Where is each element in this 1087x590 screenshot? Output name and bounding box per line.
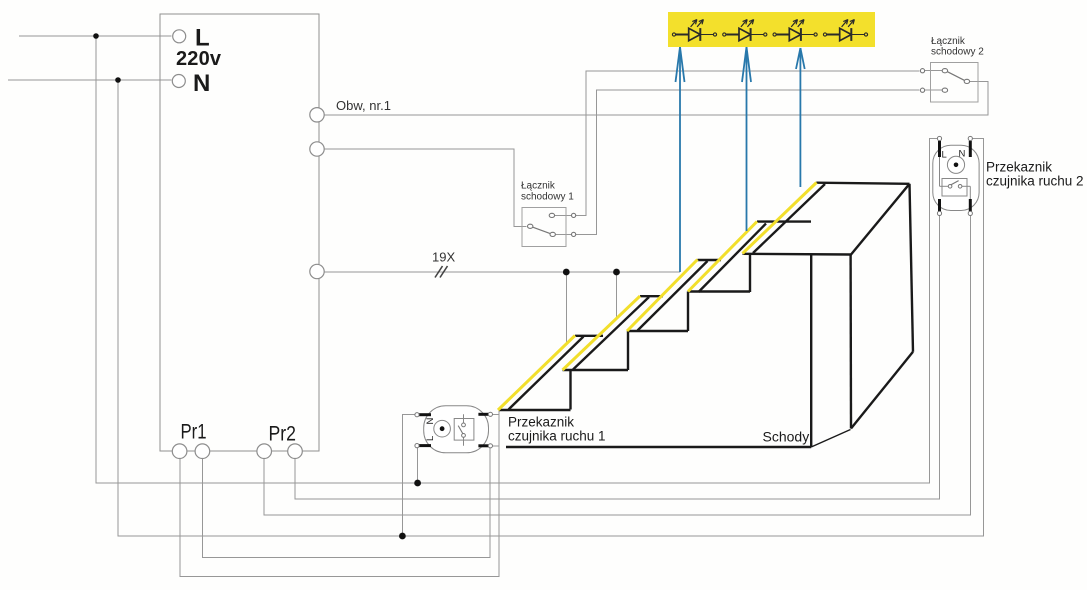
svg-text:L: L [942, 150, 947, 161]
svg-text:schodowy 1: schodowy 1 [521, 192, 574, 203]
svg-text:Schody: Schody [763, 429, 810, 445]
svg-text:Pr2: Pr2 [269, 423, 297, 446]
svg-text:N: N [425, 418, 436, 425]
svg-text:220v: 220v [176, 48, 222, 70]
svg-text:Łącznik: Łącznik [521, 181, 556, 192]
svg-text:19X: 19X [432, 250, 455, 265]
svg-text:czujnika ruchu 1: czujnika ruchu 1 [508, 429, 606, 444]
svg-text:Przekaznik: Przekaznik [986, 160, 1052, 175]
svg-text:schodowy 2: schodowy 2 [931, 47, 984, 58]
svg-text:Przekaznik: Przekaznik [508, 415, 574, 430]
svg-text:N: N [193, 70, 210, 97]
svg-text:czujnika ruchu 2: czujnika ruchu 2 [986, 174, 1084, 189]
svg-text:Łącznik: Łącznik [931, 36, 966, 47]
svg-text:Pr1: Pr1 [181, 421, 207, 444]
svg-text:L: L [425, 436, 436, 441]
svg-text:Obw, nr.1: Obw, nr.1 [336, 98, 391, 113]
